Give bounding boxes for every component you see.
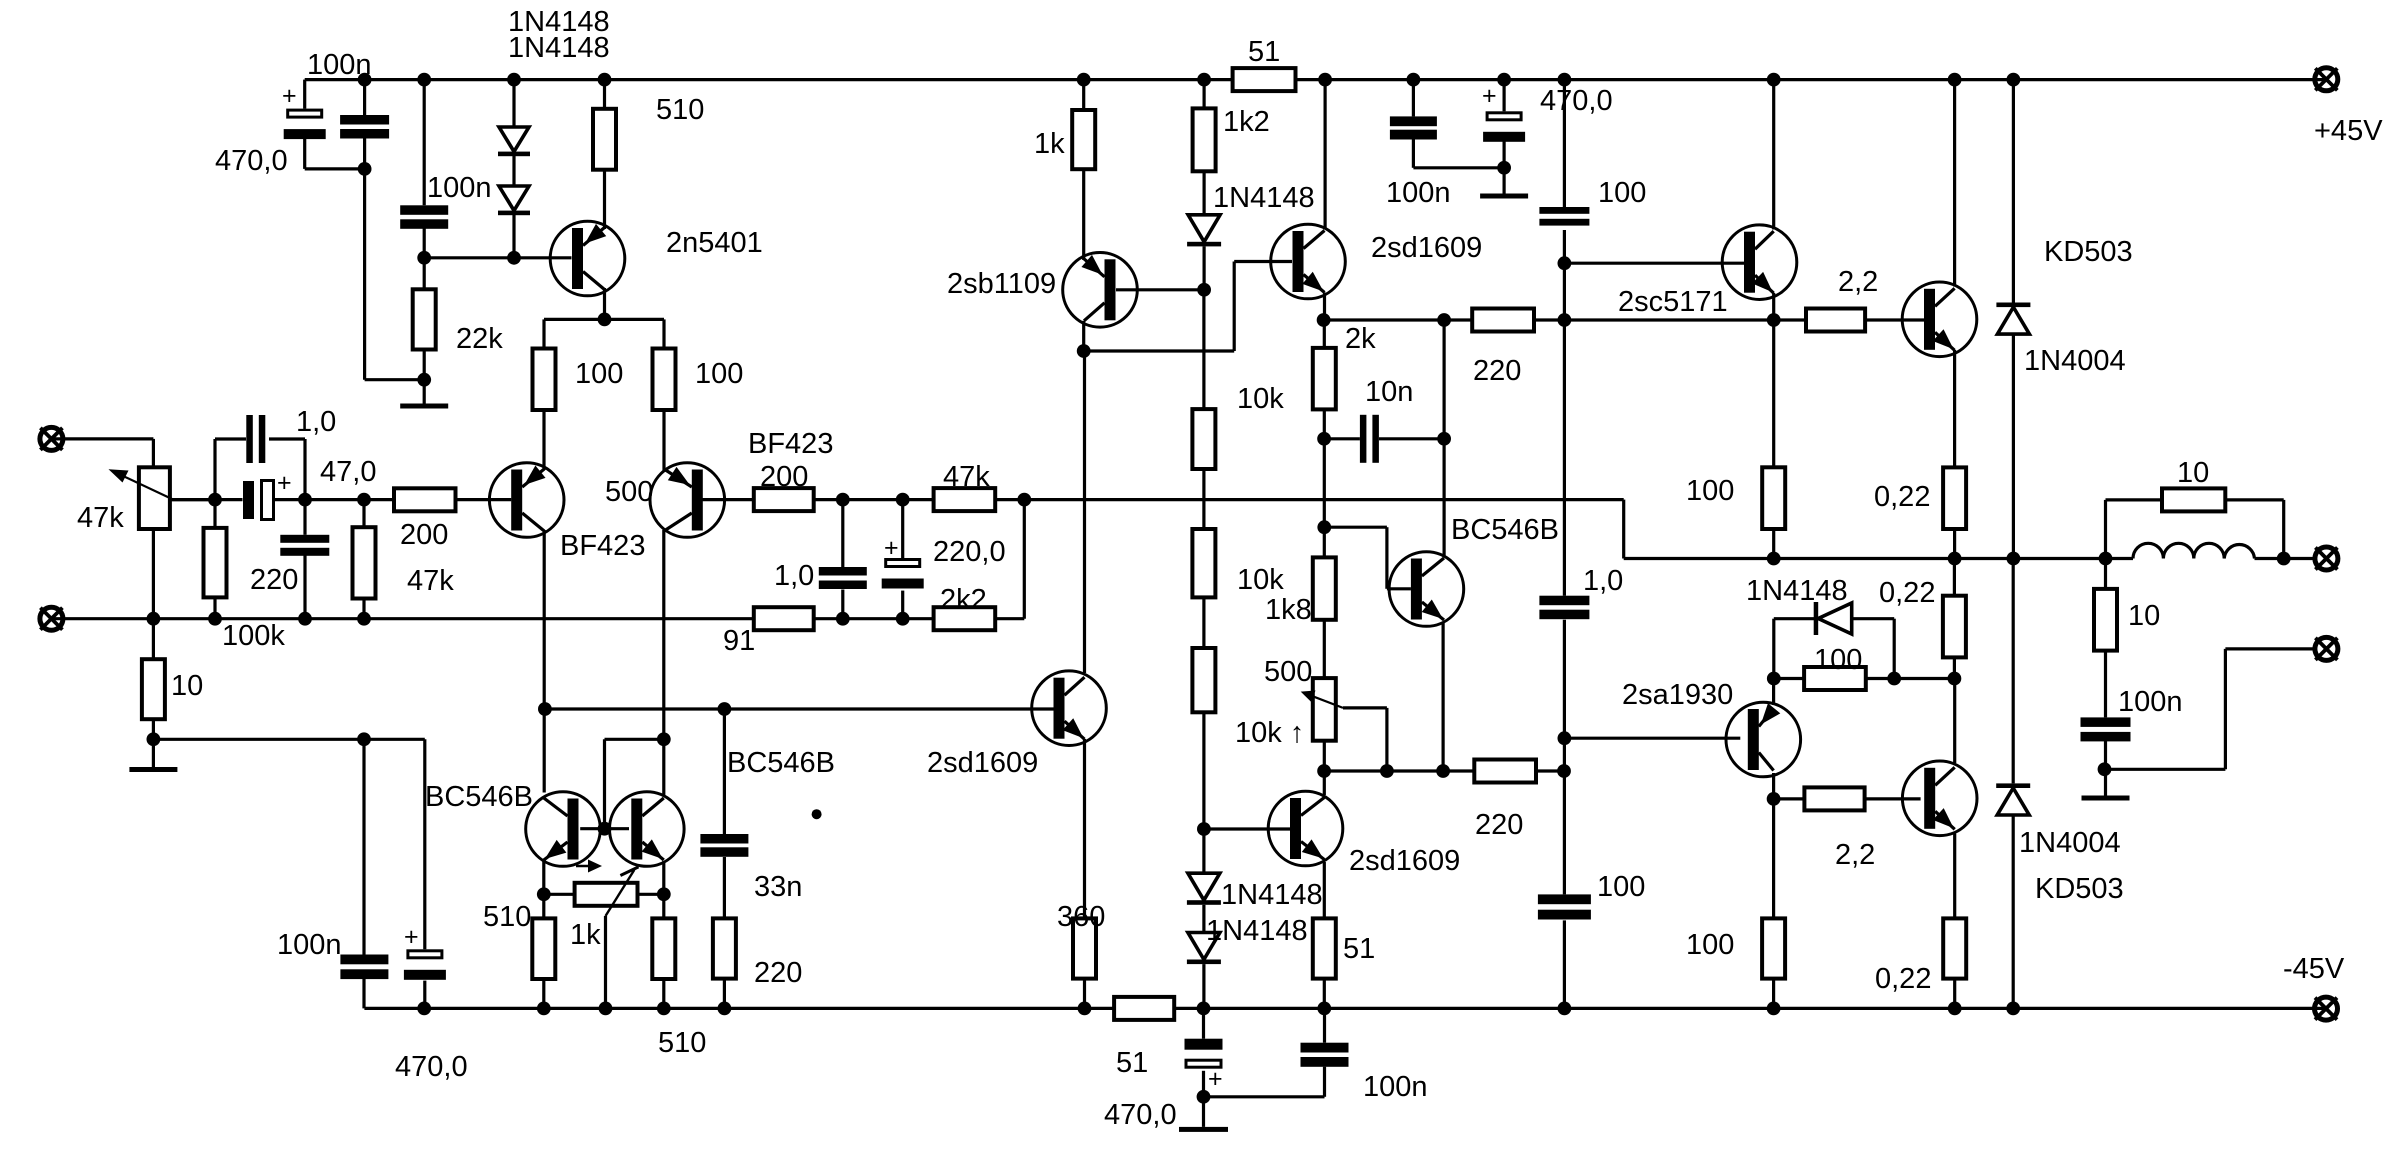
potentiometer 47k input [109, 467, 216, 529]
svg-text:+: + [1208, 1065, 1223, 1093]
wire 1k8 chain [1323, 439, 1326, 771]
svg-text:100n: 100n [1386, 177, 1451, 209]
resistor 0,22 b [1943, 596, 1966, 658]
label 51 [1248, 36, 1280, 68]
svg-text:1k8: 1k8 [1265, 594, 1312, 626]
resistor 100 bias [1804, 667, 1866, 690]
wire 100n3 cap top [1413, 80, 1504, 168]
label 100 [1686, 475, 1734, 507]
wire 2sc5171 base line [1564, 262, 1744, 265]
capacitor 100n top left [340, 115, 389, 139]
wire bias resistor row [1774, 677, 1955, 680]
svg-text:2sd1609: 2sd1609 [1349, 845, 1460, 877]
svg-text:10n: 10n [1365, 376, 1413, 408]
resistor 510 mirror right [652, 918, 675, 979]
svg-text:500: 500 [1264, 656, 1312, 688]
label 100 [1686, 929, 1734, 961]
wire 2sa1930 base line [1564, 737, 1740, 740]
wire vas collector [1083, 351, 1086, 673]
svg-text:47k: 47k [943, 461, 990, 493]
capacitor 1,0 fb [819, 567, 867, 589]
diode 1N4004 upper KD503 [1996, 303, 2030, 335]
svg-text:2,2: 2,2 [1838, 266, 1878, 298]
wire node to mirror bases [605, 739, 664, 828]
svg-text:100: 100 [1598, 177, 1646, 209]
wire 2n5401 collector [544, 288, 664, 349]
label 470,0 [395, 1051, 468, 1083]
wire 47k branch [362, 500, 365, 619]
svg-text:220,0: 220,0 [933, 536, 1006, 568]
wire kd503 upper emitter 022 [1953, 350, 1956, 559]
label 220,0 [933, 536, 1006, 568]
label 100n [427, 172, 492, 204]
svg-text:100n: 100n [427, 172, 492, 204]
capacitor 470,0 top right [1482, 82, 1525, 142]
svg-text:BC546B: BC546B [425, 781, 533, 813]
svg-text:51: 51 [1116, 1047, 1148, 1079]
resistor 91 [754, 607, 814, 630]
junction dot vas L [1077, 344, 1091, 358]
svg-text:10: 10 [2177, 457, 2209, 489]
svg-text:1N4148: 1N4148 [1221, 879, 1323, 911]
terminal output [2315, 547, 2338, 570]
junction dot diode base [417, 251, 521, 265]
wire bc546b emitter [1441, 622, 1444, 771]
wire 022 no2 [1953, 559, 1956, 679]
wire 2sd1609 upper collector [1323, 80, 1326, 230]
resistor 10k c [1192, 648, 1215, 712]
resistor 2k [1313, 348, 1336, 410]
wire feedback line [814, 500, 1624, 559]
svg-text:100n: 100n [307, 49, 372, 81]
junction dot bc546 base [1317, 520, 1331, 534]
label 510 [656, 94, 704, 126]
svg-text:10: 10 [2128, 600, 2160, 632]
svg-text:1,0: 1,0 [774, 560, 814, 592]
svg-text:1,0: 1,0 [1583, 565, 1623, 597]
svg-text:200: 200 [760, 461, 808, 493]
wire kd503 upper collector [1953, 80, 1956, 287]
wire 91 2k2 bus [814, 500, 1025, 619]
svg-text:220: 220 [1475, 809, 1523, 841]
capacitor 100 bottom [1538, 894, 1591, 919]
wire 2sd1609 bottom collector [1323, 771, 1326, 795]
svg-text:220: 220 [1473, 355, 1521, 387]
wire 2sc5171 emitter [1772, 293, 1775, 559]
svg-text:220: 220 [250, 564, 298, 596]
svg-text:BF423: BF423 [560, 530, 645, 562]
terminal -45V [2315, 997, 2338, 1020]
wire diode bias chain [1202, 829, 1205, 1008]
junction dot zobel [2098, 762, 2112, 776]
svg-text:2sc5171: 2sc5171 [1618, 286, 1728, 318]
wire 100 cap top branch [1563, 80, 1566, 320]
inductor L1 [2133, 543, 2255, 558]
capacitor 100n zobel [2081, 717, 2131, 741]
label 22k [456, 323, 503, 355]
svg-text:10k: 10k [1237, 564, 1284, 596]
svg-text:220: 220 [754, 957, 802, 989]
svg-text:22k: 22k [456, 323, 503, 355]
svg-text:2k2: 2k2 [940, 584, 987, 616]
wire rail to 100n cap TL [365, 80, 425, 380]
svg-text:360: 360 [1057, 901, 1105, 933]
label 10k &#8593; [1235, 717, 1304, 749]
transistor 2sd1609 Q6 [1032, 671, 1107, 746]
label 0,22 [1874, 481, 1930, 513]
svg-text:470,0: 470,0 [1104, 1099, 1177, 1131]
wire 100n bottom cap [1204, 1008, 1325, 1096]
wire 2sa1930 emitter [1772, 679, 1775, 706]
diode 1N4148 bias [1814, 602, 1852, 635]
label 10k [1237, 383, 1284, 415]
wire 470,0 bottom cap [1202, 1008, 1205, 1127]
resistor 0,22 c [1943, 918, 1966, 978]
label 100 [1814, 644, 1862, 676]
wire 2sd1609 bottom emitter 51 [1323, 862, 1326, 1008]
resistor 200 input [394, 488, 456, 511]
label 47,0 [320, 456, 376, 488]
resistor 10 input gnd [142, 659, 165, 719]
wire vas emitter 360 [1083, 739, 1086, 1008]
wire input to pot [51, 439, 153, 467]
svg-text:510: 510 [656, 94, 704, 126]
svg-text:1k2: 1k2 [1223, 106, 1270, 138]
wire 100 to BF423 emitters [544, 410, 664, 470]
wire 220 top right [1564, 318, 1924, 321]
label 10 [2128, 600, 2160, 632]
capacitor 100 top [1539, 207, 1589, 226]
label 0,22 [1879, 577, 1935, 609]
svg-text:0,22: 0,22 [1875, 963, 1931, 995]
svg-text:200: 200 [400, 519, 448, 551]
junction dots fb node [836, 493, 1031, 507]
svg-text:+: + [282, 82, 297, 110]
capacitor 100n top right [1390, 116, 1437, 139]
svg-text:+: + [1482, 82, 1497, 110]
wire trimmer wiper [604, 916, 607, 1008]
wire output line [1624, 557, 2133, 560]
capacitor 33n [700, 834, 748, 857]
resistor 47k input [353, 527, 376, 598]
svg-text:10: 10 [171, 670, 203, 702]
junction dot cap TL [358, 162, 372, 176]
label 100n [307, 49, 372, 81]
diode 1N4004 lower KD503 [1996, 783, 2030, 815]
junction dot 2sc base [1558, 256, 1572, 270]
label 1,0 [774, 560, 814, 592]
terminal input hot [40, 427, 63, 450]
wire vas base line [545, 707, 1054, 710]
wire 100n2 22k branch [423, 80, 426, 404]
label 220 [1475, 809, 1523, 841]
wire top +45V rail [305, 78, 2326, 81]
label 1N4004 [2024, 345, 2126, 377]
label 10n [1365, 376, 1413, 408]
label 10 [171, 670, 203, 702]
diode 1N4148 d [1187, 873, 1221, 905]
resistor 100 2sc5171 [1762, 467, 1785, 529]
wire mirror right emitter [662, 861, 665, 1008]
wire pot bottom [152, 529, 155, 619]
wire 2k branch [1323, 320, 1326, 439]
label 1N4004 [2019, 827, 2121, 859]
junction dots row 771 [1317, 764, 1571, 778]
wire bc546b base L [1324, 527, 1411, 589]
svg-text:51: 51 [1343, 933, 1375, 965]
svg-text:2sa1930: 2sa1930 [1622, 679, 1733, 711]
transistor 2sa1930 Q13 [1726, 702, 1801, 777]
transistor 2sc5171 Q11 [1722, 225, 1797, 300]
wire zobel out [2106, 649, 2316, 769]
junction dots mirror bases [598, 822, 1211, 836]
wire 510 to 2n5401 [603, 80, 606, 229]
label KD503 [2044, 236, 2133, 268]
svg-text:BF423: BF423 [748, 428, 833, 460]
svg-text:2,2: 2,2 [1835, 839, 1875, 871]
svg-text:2sd1609: 2sd1609 [1371, 232, 1482, 264]
label 2sb1109 [947, 268, 1056, 300]
wire kd503 lower collector [1953, 679, 1956, 764]
resistor 2,2 top [1806, 309, 1865, 332]
svg-text:BC546B: BC546B [727, 747, 835, 779]
svg-text:100: 100 [695, 358, 743, 390]
label 2sd1609 [1349, 845, 1460, 877]
junction dot 2sb base [1197, 283, 1211, 297]
resistor 10 zobel [2094, 589, 2117, 651]
label 47k [77, 502, 124, 534]
transistor KD503 Q12 [1902, 282, 1977, 357]
wire gnd line left [153, 738, 424, 741]
junction dots mirror emitters [537, 887, 671, 901]
capacitor 1,0 input [246, 415, 265, 463]
junction dot cap TR [1497, 161, 1511, 175]
svg-text:0,22: 0,22 [1874, 481, 1930, 513]
wire BF423 left collector [543, 530, 546, 793]
label 2,2 [1838, 266, 1878, 298]
resistor 1k [1072, 110, 1095, 169]
label 220 [250, 564, 298, 596]
capacitor 10n [1360, 415, 1379, 463]
wire mirror base join [580, 827, 629, 830]
label 200 [400, 519, 448, 551]
label 2sd1609 [1371, 232, 1482, 264]
label 33n [754, 871, 802, 903]
svg-text:100: 100 [575, 358, 623, 390]
label 10 [2177, 457, 2209, 489]
trimmer 1k [575, 867, 639, 916]
label 2n5401 [666, 227, 763, 259]
svg-text:+: + [404, 923, 419, 951]
svg-text:BC546B: BC546B [1451, 514, 1559, 546]
svg-text:500: 500 [605, 476, 653, 508]
wire mirror left emitter [542, 861, 545, 1008]
svg-text:+: + [884, 534, 899, 562]
label 1N4148 [1746, 575, 1848, 607]
resistor 10k b [1192, 529, 1215, 597]
label 1,0 [1583, 565, 1623, 597]
label 510 [658, 1027, 706, 1059]
svg-text:470,0: 470,0 [395, 1051, 468, 1083]
label 2k [1345, 323, 1376, 355]
svg-text:1N4004: 1N4004 [2019, 827, 2121, 859]
junction dots vas base [538, 702, 731, 716]
capacitor 470,0 top left [282, 82, 326, 139]
capacitor 1,0 mid [1539, 596, 1589, 620]
label BF423 [748, 428, 833, 460]
svg-text:1N4004: 1N4004 [2024, 345, 2126, 377]
wire diode pair branch [512, 80, 515, 258]
junction dots bottom rail [417, 1002, 2020, 1016]
wire 33n branch [723, 709, 726, 1008]
resistor 220 33n [713, 918, 736, 978]
resistor 220 mid [1474, 760, 1536, 783]
svg-text:100: 100 [1814, 644, 1862, 676]
resistor 510 mirror left [532, 918, 555, 979]
wire 10 gnd branch [152, 619, 155, 767]
arrow mark mirror [576, 860, 602, 873]
wire 220 branch [303, 500, 306, 619]
label 100k [222, 620, 285, 652]
wire kd503 lower emitter [1953, 834, 1956, 1009]
wire 1k top [1082, 80, 1085, 260]
resistor 1k8 [1313, 557, 1336, 619]
wire 470,0 100n decoupling left [364, 739, 425, 1008]
svg-text:47k: 47k [77, 502, 124, 534]
label 470,0 [1540, 85, 1613, 117]
svg-text:KD503: KD503 [2044, 236, 2133, 268]
junction dot bottom caps [1197, 1090, 1211, 1104]
label 10k [1237, 564, 1284, 596]
junction dots gnd bus [147, 612, 910, 626]
label 1k2 [1223, 106, 1270, 138]
label 100 [695, 358, 743, 390]
capacitor 220,0 fb [882, 534, 924, 589]
wire 1,0 cap mid branch [1563, 320, 1566, 1008]
terminal output gnd [2315, 637, 2338, 660]
resistor 51 bias [1313, 918, 1336, 978]
svg-text:1N4148: 1N4148 [508, 32, 610, 64]
svg-text:+: + [277, 469, 292, 497]
diode 1N4148 a [498, 127, 530, 156]
wire 1n4004 upper [2012, 80, 2015, 559]
svg-text:100: 100 [1597, 871, 1645, 903]
svg-text:47k: 47k [407, 565, 454, 597]
svg-text:1N4148: 1N4148 [1206, 915, 1308, 947]
svg-text:470,0: 470,0 [215, 145, 288, 177]
label 1,0 [296, 406, 336, 438]
transistor 2sd1609 Q5 [1271, 224, 1346, 299]
label 100n [277, 929, 342, 961]
resistor 360 [1073, 918, 1096, 978]
transistor 2n5401 Q1 [550, 221, 625, 296]
wire mirror right collector [662, 739, 665, 795]
wire rail to 470,0 cap TL [305, 80, 365, 169]
transistor 2sb1109 Q4 [1063, 252, 1138, 327]
label 1N4148 [508, 6, 610, 38]
diode 1N4148 e [1187, 933, 1221, 965]
resistor 220 top [1472, 309, 1534, 332]
transistor BC546B Q8 [526, 792, 601, 867]
junction dot 22k gnd [417, 373, 431, 387]
wire node diodes to 2n5401 base [424, 256, 571, 259]
label 47k [943, 461, 990, 493]
label 91 [723, 625, 755, 657]
svg-text:100k: 100k [222, 620, 285, 652]
label 220 [754, 957, 802, 989]
label 2,2 [1835, 839, 1875, 871]
transistor BC546B Q9 [610, 792, 685, 867]
wire trimmer ends [544, 893, 664, 896]
svg-text:510: 510 [658, 1027, 706, 1059]
capacitor 100n bottom mid [1301, 1043, 1349, 1067]
svg-text:51: 51 [1248, 36, 1280, 68]
svg-text:2n5401: 2n5401 [666, 227, 763, 259]
ground top right [1480, 194, 1528, 199]
svg-text:0,22: 0,22 [1879, 577, 1935, 609]
svg-text:2sb1109: 2sb1109 [947, 268, 1056, 300]
wire 2sd1609 bottom base [1204, 827, 1290, 830]
label 100 [575, 358, 623, 390]
label 500 [605, 476, 653, 508]
label BF423 [560, 530, 645, 562]
wire 1,0 fb cap [841, 500, 844, 619]
capacitor 47,0 input [243, 469, 292, 520]
label 100n [1363, 1071, 1428, 1103]
resistor 10 damping [2162, 488, 2225, 511]
label 2sd1609 [927, 747, 1038, 779]
svg-text:1N4148: 1N4148 [1213, 182, 1315, 214]
wire pot500 wiper [1343, 708, 1387, 771]
label 2sc5171 [1618, 286, 1728, 318]
transistor KD503 Q14 [1902, 761, 1977, 836]
junction dots gnd line [147, 731, 1572, 746]
junction dots bias node [1767, 672, 1961, 686]
label 500 [1264, 656, 1312, 688]
svg-text:10k: 10k [1237, 383, 1284, 415]
junction dots output line [1767, 552, 2291, 566]
svg-text:100n: 100n [277, 929, 342, 961]
wire 10k chain [1202, 290, 1205, 829]
label 51 [1116, 1047, 1148, 1079]
label KD503 [2035, 873, 2124, 905]
resistor 2,2 bottom [1804, 787, 1864, 810]
svg-text:KD503: KD503 [2035, 873, 2124, 905]
label BC546B [727, 747, 835, 779]
resistor 2k2 [934, 607, 996, 630]
wire 10n link [1324, 437, 1445, 440]
ground bottom mid [1179, 1127, 1228, 1132]
label 2k2 [940, 584, 987, 616]
svg-text:33n: 33n [754, 871, 802, 903]
label 1N4148 [508, 32, 610, 64]
label BC546B [425, 781, 533, 813]
wire BF423 right collector [662, 530, 665, 739]
label 200 [760, 461, 808, 493]
label 1k8 [1265, 594, 1312, 626]
junction dots 10n row [1317, 432, 1451, 446]
wire wiper node [165, 498, 511, 501]
junction dots 220 row [1317, 313, 1781, 327]
label 1k [1034, 128, 1065, 160]
svg-text:1,0: 1,0 [296, 406, 336, 438]
svg-text:100n: 100n [2118, 686, 2183, 718]
svg-text:2sd1609: 2sd1609 [927, 747, 1038, 779]
wire inductor out [2255, 557, 2316, 560]
resistor 22k [413, 289, 436, 349]
label 100 [1597, 871, 1645, 903]
capacitor 470,0 bottom mid [1185, 1039, 1223, 1093]
